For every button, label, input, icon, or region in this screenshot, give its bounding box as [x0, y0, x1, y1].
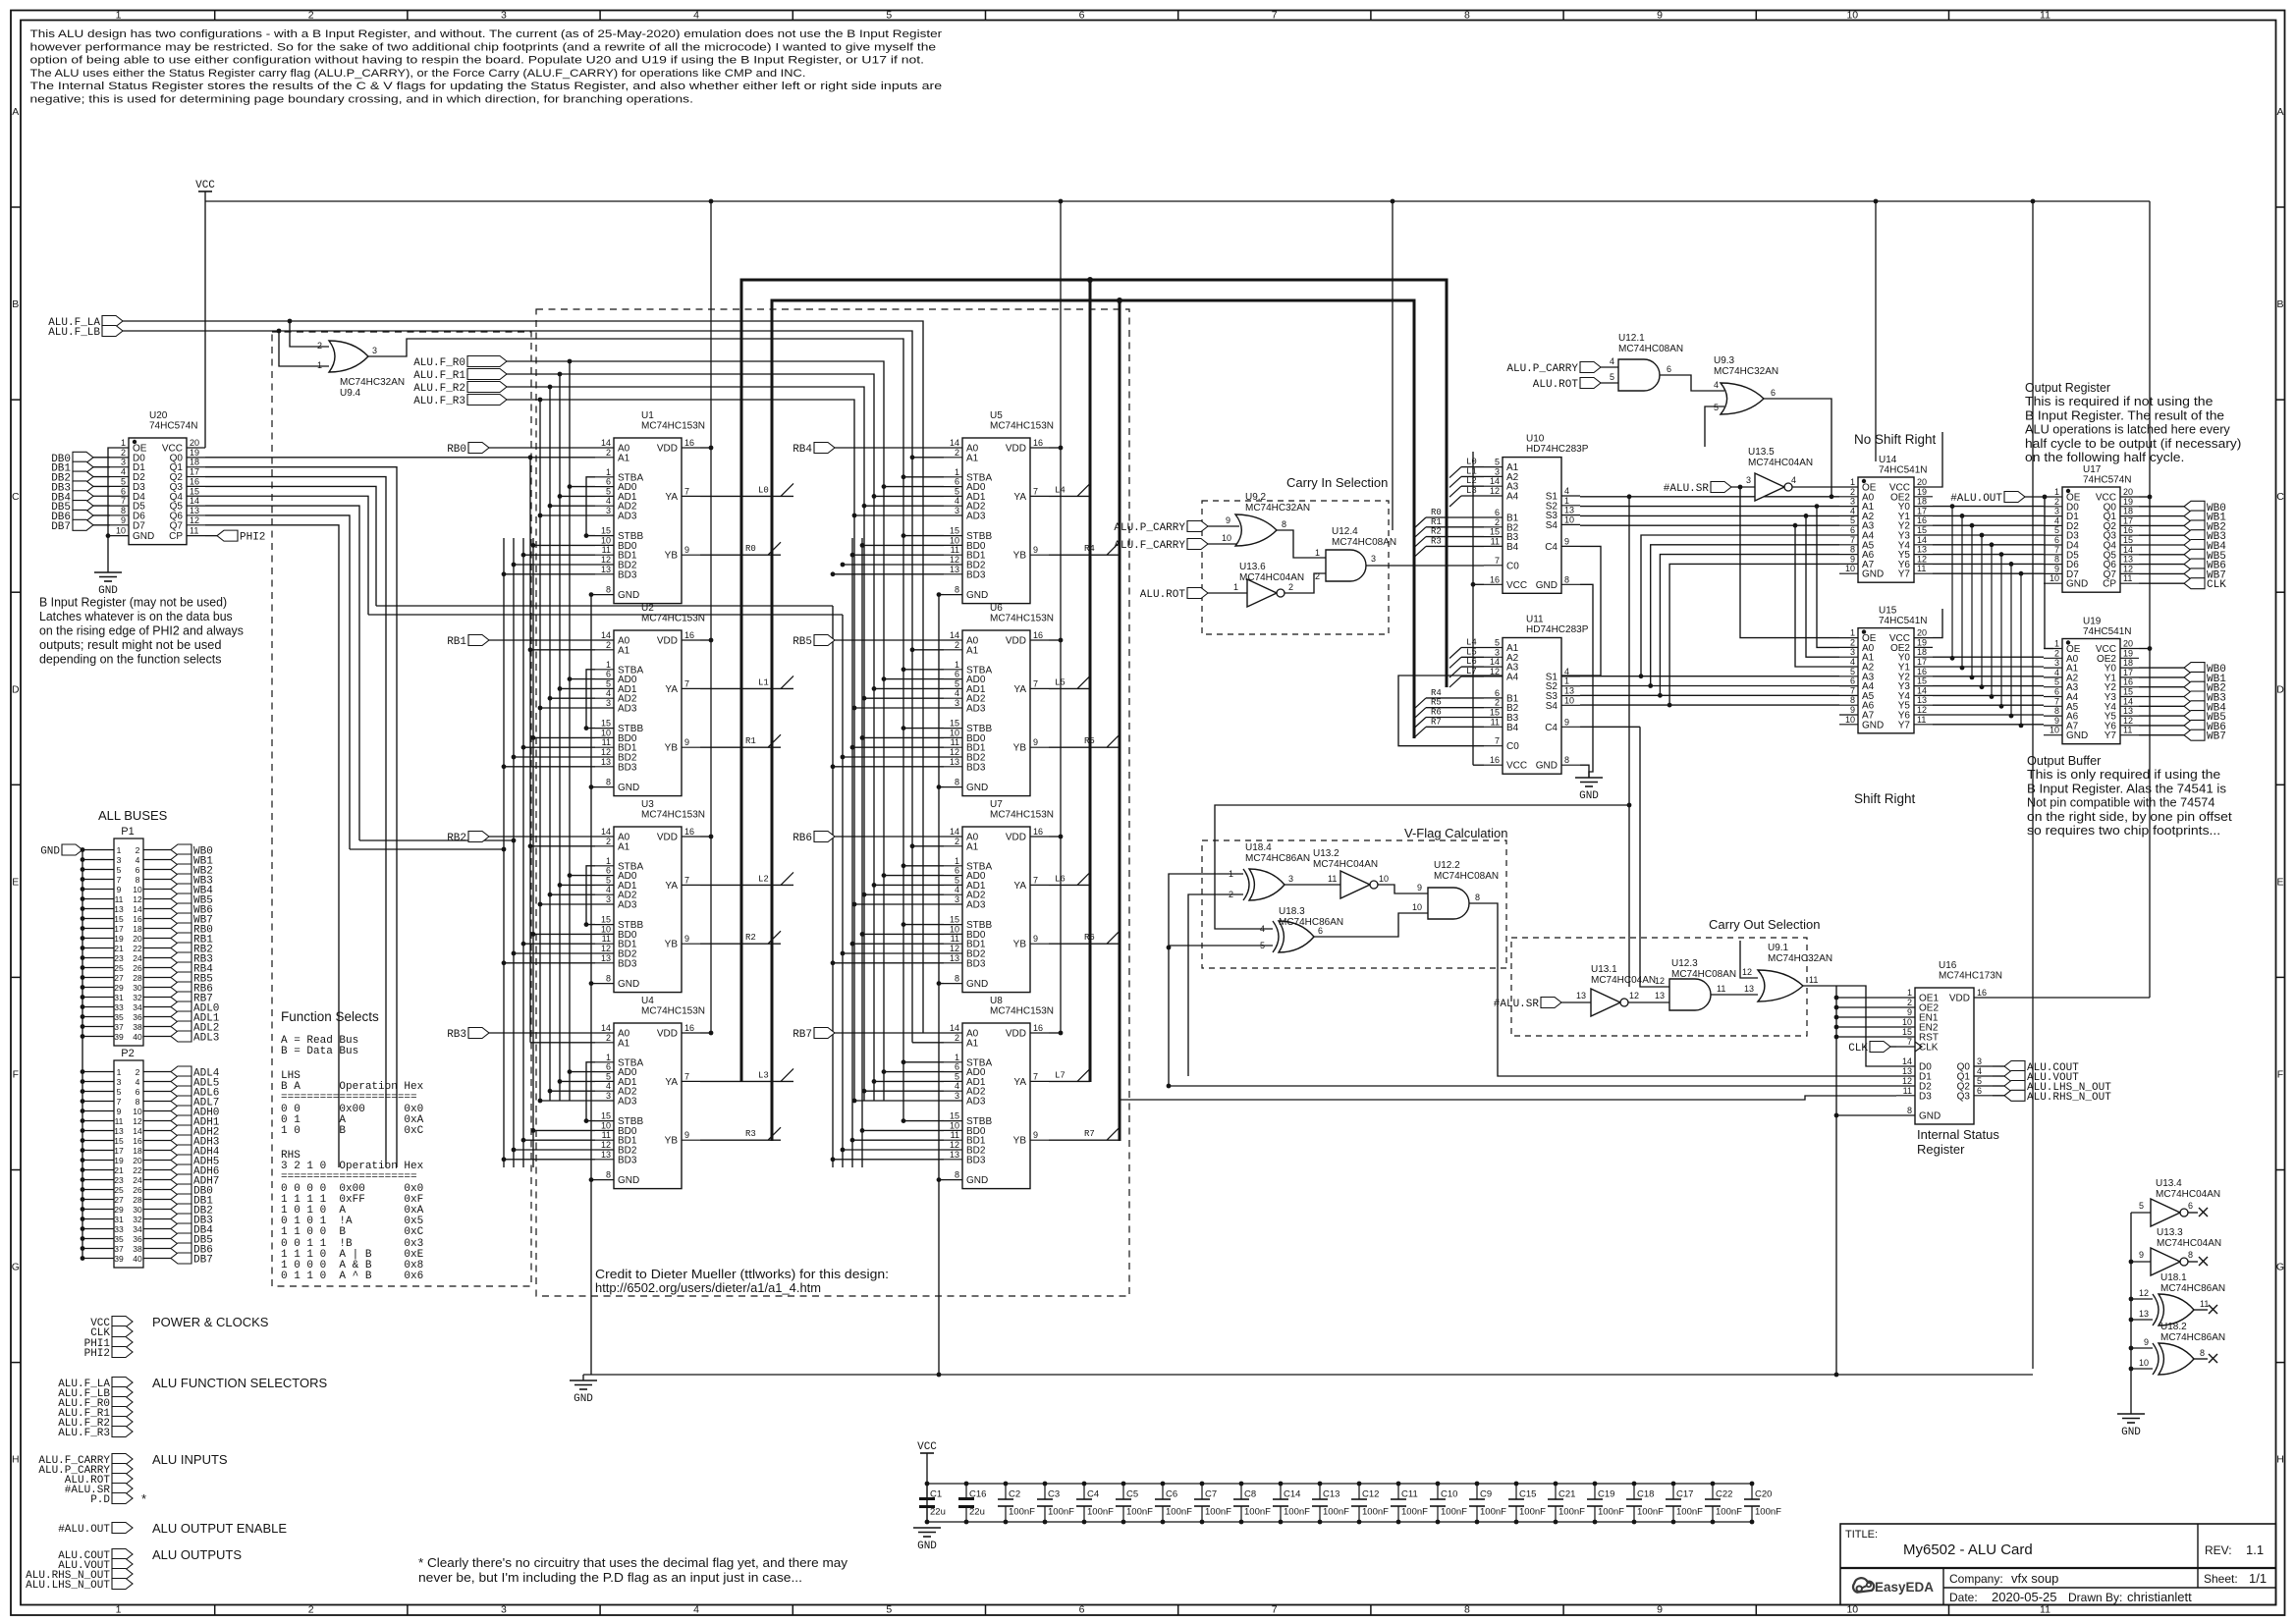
- svg-text:100nF: 100nF: [1284, 1507, 1310, 1518]
- svg-text:13: 13: [601, 953, 611, 963]
- svg-text:9: 9: [684, 545, 689, 555]
- svg-text:GND: GND: [618, 590, 639, 601]
- svg-text:2: 2: [955, 1033, 959, 1043]
- svg-text:16: 16: [684, 1023, 694, 1033]
- svg-text:CP: CP: [169, 531, 183, 542]
- svg-text:16: 16: [2123, 525, 2133, 535]
- svg-text:14: 14: [601, 827, 611, 837]
- svg-text:My6502 - ALU Card: My6502 - ALU Card: [1903, 1542, 2033, 1558]
- svg-text:MC74HC04AN: MC74HC04AN: [2156, 1189, 2220, 1200]
- svg-text:R4: R4: [1084, 544, 1095, 554]
- svg-text:11: 11: [1917, 564, 1926, 573]
- svg-text:MC74HC153N: MC74HC153N: [990, 810, 1054, 821]
- svg-text:15: 15: [950, 915, 959, 925]
- svg-text:19: 19: [190, 448, 199, 458]
- svg-text:39: 39: [114, 1032, 124, 1042]
- svg-text:U8: U8: [990, 996, 1003, 1006]
- svg-text:C10: C10: [1441, 1489, 1457, 1500]
- svg-text:U9.3: U9.3: [1714, 355, 1735, 366]
- svg-text:100nF: 100nF: [1244, 1507, 1271, 1518]
- svg-text:5: 5: [1260, 941, 1265, 950]
- svg-text:U13.6: U13.6: [1239, 562, 1266, 572]
- svg-text:16: 16: [1490, 574, 1500, 584]
- svg-text:GND: GND: [1919, 1111, 1941, 1122]
- svg-text:C15: C15: [1519, 1489, 1536, 1500]
- svg-text:outputs; result might not be u: outputs; result might not be used: [39, 637, 222, 652]
- svg-text:No Shift Right: No Shift Right: [1854, 432, 1937, 447]
- svg-text:5: 5: [955, 1071, 959, 1081]
- svg-text:15: 15: [2123, 687, 2133, 697]
- svg-text:Q3: Q3: [1957, 1091, 1971, 1102]
- svg-text:6: 6: [1495, 688, 1500, 698]
- svg-text:GND: GND: [966, 783, 988, 793]
- svg-text:11: 11: [602, 1130, 611, 1140]
- svg-text:74HC574N: 74HC574N: [2083, 475, 2131, 486]
- svg-text:MC74HC153N: MC74HC153N: [641, 614, 705, 624]
- svg-text:R0: R0: [1431, 508, 1442, 517]
- svg-text:11: 11: [951, 1130, 959, 1140]
- svg-text:1: 1: [1315, 548, 1320, 558]
- svg-text:MC74HC04AN: MC74HC04AN: [1591, 975, 1656, 986]
- svg-text:VDD: VDD: [1006, 833, 1026, 843]
- svg-text:6: 6: [606, 866, 611, 876]
- svg-text:AD3: AD3: [966, 512, 986, 522]
- svg-text:7: 7: [1495, 736, 1500, 746]
- svg-text:6: 6: [1977, 1086, 1982, 1096]
- svg-text:4: 4: [606, 688, 611, 698]
- svg-text:16: 16: [684, 630, 694, 640]
- svg-text:16: 16: [133, 1136, 142, 1146]
- svg-text:1: 1: [1850, 477, 1855, 487]
- svg-text:26: 26: [133, 1185, 142, 1195]
- svg-text:100nF: 100nF: [1519, 1507, 1546, 1518]
- svg-text:VDD: VDD: [657, 444, 678, 455]
- svg-text:RB7: RB7: [793, 1029, 812, 1041]
- svg-text:Sheet:: Sheet:: [2204, 1572, 2238, 1586]
- svg-text:10: 10: [2050, 573, 2059, 583]
- svg-text:32: 32: [133, 993, 142, 1002]
- svg-text:9: 9: [2054, 716, 2059, 726]
- svg-text:Credit to Dieter Mueller (ttlw: Credit to Dieter Mueller (ttlworks) for …: [595, 1267, 889, 1281]
- svg-text:3: 3: [606, 698, 611, 708]
- svg-text:PHI2: PHI2: [240, 532, 265, 544]
- svg-text:6: 6: [955, 1062, 959, 1072]
- svg-text:U14: U14: [1879, 455, 1897, 465]
- svg-text:This is required if not using: This is required if not using the: [2025, 394, 2213, 408]
- svg-text:6: 6: [955, 670, 959, 679]
- svg-text:U20: U20: [149, 410, 168, 421]
- svg-text:12: 12: [2123, 716, 2133, 726]
- svg-text:1: 1: [606, 1053, 611, 1062]
- svg-text:on the rising edge of PHI2 and: on the rising edge of PHI2 and always: [39, 623, 244, 638]
- svg-text:16: 16: [1917, 515, 1927, 525]
- svg-text:HD74HC283P: HD74HC283P: [1526, 444, 1589, 455]
- svg-text:11: 11: [951, 934, 959, 944]
- svg-text:15: 15: [114, 914, 124, 924]
- svg-text:12: 12: [601, 747, 611, 757]
- svg-text:14: 14: [1902, 1056, 1912, 1066]
- svg-text:10: 10: [950, 1120, 959, 1130]
- svg-text:18: 18: [2123, 658, 2133, 668]
- svg-text:100nF: 100nF: [1401, 1507, 1428, 1518]
- svg-text:5: 5: [1850, 515, 1855, 525]
- svg-text:This ALU design has two config: This ALU design has two configurations -…: [30, 28, 943, 40]
- svg-text:12: 12: [601, 944, 611, 953]
- svg-text:14: 14: [2123, 696, 2133, 706]
- svg-text:AD3: AD3: [618, 900, 637, 911]
- svg-text:VDD: VDD: [657, 833, 678, 843]
- svg-text:R6: R6: [1084, 933, 1095, 943]
- svg-text:19: 19: [114, 934, 124, 944]
- svg-text:7: 7: [1033, 1071, 1038, 1081]
- svg-text:YB: YB: [665, 940, 679, 950]
- svg-text:*: *: [141, 1491, 146, 1506]
- svg-text:8: 8: [1464, 9, 1470, 21]
- svg-text:A1: A1: [618, 1038, 630, 1049]
- svg-text:ALU.ROT: ALU.ROT: [1140, 589, 1186, 601]
- svg-text:GND: GND: [574, 1393, 593, 1405]
- svg-text:4: 4: [1564, 486, 1569, 496]
- svg-text:6: 6: [1771, 388, 1776, 398]
- svg-text:4: 4: [1850, 506, 1855, 515]
- svg-text:G: G: [12, 1262, 20, 1273]
- svg-text:14: 14: [1917, 535, 1927, 545]
- svg-text:GND: GND: [618, 979, 639, 990]
- svg-text:15: 15: [601, 526, 611, 536]
- svg-text:MC74HC08AN: MC74HC08AN: [1332, 537, 1396, 548]
- svg-text:A4: A4: [1506, 672, 1519, 682]
- svg-text:5: 5: [1714, 403, 1719, 412]
- svg-text:A1: A1: [966, 645, 979, 656]
- svg-text:19: 19: [114, 1156, 124, 1165]
- svg-text:7: 7: [684, 875, 689, 885]
- svg-text:6: 6: [606, 477, 611, 487]
- svg-text:MC74HC04AN: MC74HC04AN: [1748, 458, 1813, 468]
- svg-text:L4: L4: [1466, 638, 1477, 648]
- svg-text:29: 29: [114, 1205, 124, 1215]
- svg-text:U4: U4: [641, 996, 654, 1006]
- svg-text:3: 3: [955, 506, 959, 515]
- svg-text:U13.2: U13.2: [1313, 848, 1339, 859]
- svg-text:3: 3: [1977, 1056, 1982, 1066]
- svg-text:10: 10: [1845, 715, 1855, 725]
- svg-text:5: 5: [117, 1087, 122, 1097]
- svg-text:R6: R6: [1431, 708, 1442, 718]
- svg-text:4: 4: [1791, 475, 1796, 485]
- svg-text:7: 7: [684, 1071, 689, 1081]
- svg-text:8: 8: [1850, 545, 1855, 555]
- svg-text:GND: GND: [966, 979, 988, 990]
- svg-text:Not pin compatible with the 74: Not pin compatible with the 74574: [2027, 795, 2214, 810]
- svg-text:10: 10: [133, 1107, 142, 1116]
- svg-text:C12: C12: [1362, 1489, 1379, 1500]
- svg-text:22u: 22u: [969, 1507, 985, 1518]
- svg-text:12: 12: [133, 894, 142, 904]
- svg-text:This is only required if using: This is only required if using the: [2027, 767, 2220, 782]
- svg-text:L2: L2: [758, 874, 769, 884]
- svg-text:GND: GND: [1862, 569, 1884, 580]
- svg-text:10: 10: [1846, 9, 1858, 21]
- svg-text:9: 9: [1657, 9, 1663, 21]
- svg-text:C2: C2: [1009, 1489, 1020, 1500]
- svg-text:B4: B4: [1506, 542, 1519, 553]
- svg-text:7: 7: [1907, 1037, 1912, 1047]
- svg-text:14: 14: [950, 438, 959, 448]
- svg-text:19: 19: [1917, 487, 1927, 497]
- svg-text:U18.3: U18.3: [1279, 906, 1305, 917]
- svg-text:3: 3: [2054, 507, 2059, 516]
- svg-text:R5: R5: [1431, 698, 1442, 708]
- svg-text:7: 7: [2054, 545, 2059, 555]
- svg-text:5: 5: [886, 9, 892, 21]
- svg-text:11: 11: [1809, 975, 1818, 985]
- svg-text:2: 2: [955, 837, 959, 846]
- svg-text:CLK: CLK: [1848, 1043, 1868, 1055]
- svg-text:A1: A1: [966, 841, 979, 852]
- svg-text:8: 8: [1464, 1604, 1470, 1616]
- svg-text:10: 10: [116, 526, 126, 536]
- svg-text:4: 4: [2054, 668, 2059, 677]
- svg-text:MC74HC08AN: MC74HC08AN: [1618, 344, 1683, 354]
- svg-text:20: 20: [190, 438, 199, 448]
- svg-text:7: 7: [684, 486, 689, 496]
- svg-text:8: 8: [1850, 695, 1855, 705]
- svg-text:YA: YA: [1013, 1077, 1026, 1088]
- svg-text:100nF: 100nF: [1558, 1507, 1585, 1518]
- svg-text:14: 14: [1490, 657, 1500, 667]
- svg-text:10: 10: [2139, 1358, 2149, 1368]
- svg-text:15: 15: [1902, 1027, 1912, 1037]
- svg-text:7: 7: [1495, 556, 1500, 566]
- svg-text:YB: YB: [665, 1136, 679, 1147]
- svg-text:15: 15: [950, 719, 959, 729]
- svg-text:U9.1: U9.1: [1768, 943, 1789, 953]
- svg-text:CLK: CLK: [1919, 1043, 1939, 1054]
- svg-text:12: 12: [190, 515, 199, 525]
- svg-text:GND: GND: [966, 590, 988, 601]
- svg-text:A1: A1: [618, 453, 630, 463]
- svg-text:MC74HC153N: MC74HC153N: [641, 1006, 705, 1017]
- svg-text:U7: U7: [990, 799, 1003, 810]
- svg-text:11: 11: [190, 526, 198, 536]
- svg-text:14: 14: [133, 1126, 142, 1136]
- svg-text:GND: GND: [1536, 580, 1558, 591]
- svg-text:12: 12: [950, 555, 959, 565]
- svg-text:15: 15: [190, 486, 199, 496]
- svg-text:U18.2: U18.2: [2160, 1322, 2187, 1332]
- svg-text:6: 6: [121, 486, 126, 496]
- svg-text:30: 30: [133, 1205, 142, 1215]
- svg-text:#ALU.SR: #ALU.SR: [1664, 483, 1710, 495]
- svg-text:22: 22: [133, 944, 142, 953]
- svg-text:ALU.F_R1: ALU.F_R1: [413, 370, 465, 382]
- svg-text:15: 15: [1917, 676, 1927, 686]
- svg-text:CP: CP: [2103, 579, 2116, 590]
- svg-text:4: 4: [606, 885, 611, 894]
- svg-text:2: 2: [2054, 648, 2059, 658]
- svg-text:4: 4: [693, 9, 699, 21]
- svg-text:C17: C17: [1676, 1489, 1693, 1500]
- svg-text:11: 11: [115, 1116, 124, 1126]
- svg-text:7: 7: [1033, 486, 1038, 496]
- svg-text:74HC574N: 74HC574N: [149, 421, 197, 432]
- svg-text:U16: U16: [1939, 960, 1957, 971]
- svg-text:100nF: 100nF: [1441, 1507, 1467, 1518]
- svg-text:11: 11: [951, 737, 959, 747]
- svg-text:R0: R0: [745, 544, 756, 554]
- svg-text:H: H: [2276, 1454, 2284, 1466]
- svg-text:Date:: Date:: [1949, 1591, 1978, 1604]
- svg-text:L5: L5: [1055, 677, 1066, 687]
- svg-text:13: 13: [114, 1126, 124, 1136]
- svg-text:L1: L1: [758, 677, 769, 687]
- svg-text:1: 1: [116, 9, 122, 21]
- svg-text:6: 6: [1667, 364, 1671, 374]
- svg-text:P.D: P.D: [90, 1494, 110, 1506]
- svg-text:2: 2: [317, 341, 322, 351]
- svg-text:40: 40: [133, 1032, 142, 1042]
- svg-text:U12.4: U12.4: [1332, 526, 1358, 537]
- svg-text:11: 11: [2123, 726, 2132, 735]
- svg-text:16: 16: [1917, 667, 1927, 676]
- svg-text:D3: D3: [1919, 1091, 1932, 1102]
- svg-text:MC74HC04AN: MC74HC04AN: [1239, 572, 1304, 583]
- svg-text:14: 14: [601, 1023, 611, 1033]
- svg-text:ALU.F_R3: ALU.F_R3: [58, 1428, 110, 1439]
- svg-text:B Input Register. Alas the 745: B Input Register. Alas the 74541 is: [2027, 781, 2226, 795]
- svg-text:32: 32: [133, 1215, 142, 1224]
- svg-text:9: 9: [1907, 1007, 1912, 1017]
- svg-text:13: 13: [950, 757, 959, 767]
- svg-text:U2: U2: [641, 603, 654, 614]
- svg-text:YA: YA: [1013, 492, 1026, 503]
- svg-text:13: 13: [1902, 1066, 1912, 1076]
- svg-text:U1: U1: [641, 410, 654, 421]
- svg-text:5: 5: [955, 678, 959, 688]
- svg-text:24: 24: [133, 953, 142, 963]
- svg-text:GND: GND: [618, 783, 639, 793]
- svg-text:R7: R7: [1431, 717, 1442, 727]
- svg-text:MC74HC32AN: MC74HC32AN: [1768, 953, 1832, 964]
- svg-text:2: 2: [1315, 571, 1320, 581]
- svg-text:10: 10: [950, 728, 959, 737]
- svg-text:10: 10: [1379, 874, 1389, 884]
- svg-text:U11: U11: [1526, 615, 1544, 625]
- svg-text:1: 1: [1564, 496, 1569, 506]
- svg-text:GND: GND: [2121, 1427, 2141, 1438]
- svg-text:2: 2: [606, 837, 611, 846]
- svg-text:ALU OUTPUTS: ALU OUTPUTS: [152, 1547, 242, 1562]
- svg-text:A4: A4: [1506, 492, 1519, 503]
- svg-text:36: 36: [133, 1234, 142, 1244]
- svg-text:U17: U17: [2083, 464, 2102, 475]
- svg-text:4: 4: [693, 1604, 699, 1616]
- svg-text:29: 29: [114, 983, 124, 993]
- svg-text:35: 35: [114, 1012, 124, 1022]
- svg-text:13: 13: [601, 565, 611, 574]
- svg-text:BD3: BD3: [966, 762, 986, 773]
- svg-text:2: 2: [308, 9, 314, 21]
- svg-text:9: 9: [1033, 545, 1038, 555]
- svg-text:#ALU.OUT: #ALU.OUT: [58, 1524, 110, 1536]
- svg-text:8: 8: [955, 778, 959, 787]
- svg-text:C: C: [12, 491, 20, 503]
- svg-text:ALU OUTPUT ENABLE: ALU OUTPUT ENABLE: [152, 1521, 287, 1536]
- svg-text:2: 2: [1907, 998, 1912, 1007]
- svg-text:20: 20: [133, 934, 142, 944]
- svg-text:3: 3: [1495, 466, 1500, 476]
- svg-text:YB: YB: [1013, 940, 1027, 950]
- svg-text:VCC: VCC: [195, 180, 215, 191]
- svg-text:R1: R1: [1431, 517, 1442, 527]
- svg-text:5: 5: [886, 1604, 892, 1616]
- svg-text:3: 3: [606, 506, 611, 515]
- svg-text:Carry In Selection: Carry In Selection: [1286, 475, 1388, 490]
- svg-text:GND: GND: [1862, 720, 1884, 730]
- svg-text:9: 9: [1850, 705, 1855, 715]
- svg-text:ALU.P_CARRY: ALU.P_CARRY: [1506, 363, 1578, 375]
- svg-text:3: 3: [1850, 647, 1855, 657]
- svg-text:AD3: AD3: [966, 900, 986, 911]
- svg-text:ALU.F_R2: ALU.F_R2: [413, 383, 465, 395]
- svg-text:E: E: [2276, 876, 2283, 888]
- svg-text:VDD: VDD: [1006, 444, 1026, 455]
- svg-text:GND: GND: [966, 1175, 988, 1186]
- svg-text:option of being able to use ei: option of being able to use either confi…: [30, 55, 925, 67]
- svg-text:U12.3: U12.3: [1671, 958, 1698, 969]
- svg-text:17: 17: [114, 924, 124, 934]
- svg-text:3: 3: [501, 9, 507, 21]
- svg-text:Output Buffer: Output Buffer: [2027, 753, 2102, 768]
- svg-text:C4: C4: [1087, 1489, 1099, 1500]
- svg-text:8: 8: [606, 585, 611, 595]
- svg-text:VCC: VCC: [1506, 580, 1527, 591]
- svg-text:RB6: RB6: [793, 833, 812, 844]
- svg-text:C4: C4: [1545, 542, 1558, 553]
- svg-text:MC74HC153N: MC74HC153N: [990, 421, 1054, 432]
- svg-text:1: 1: [955, 467, 959, 477]
- svg-text:100nF: 100nF: [1637, 1507, 1664, 1518]
- svg-text:GND: GND: [618, 1175, 639, 1186]
- svg-text:37: 37: [114, 1022, 124, 1032]
- svg-text:11: 11: [2040, 1604, 2050, 1616]
- svg-text:2: 2: [1850, 637, 1855, 647]
- svg-text:21: 21: [114, 1165, 124, 1175]
- svg-text:100nF: 100nF: [1048, 1507, 1074, 1518]
- svg-text:8: 8: [1282, 519, 1286, 529]
- svg-text:3: 3: [372, 346, 377, 355]
- svg-text:1: 1: [121, 438, 126, 448]
- svg-text:12: 12: [1917, 554, 1927, 564]
- svg-text:1: 1: [117, 1067, 122, 1077]
- svg-text:4: 4: [1564, 667, 1569, 676]
- svg-text:2: 2: [1495, 698, 1500, 708]
- svg-text:ALU.ROT: ALU.ROT: [1533, 379, 1579, 391]
- svg-text:GND: GND: [917, 1541, 937, 1552]
- svg-text:8: 8: [2054, 555, 2059, 565]
- svg-text:30: 30: [133, 983, 142, 993]
- svg-text:U15: U15: [1879, 606, 1897, 617]
- svg-text:ALU.LHS_N_OUT: ALU.LHS_N_OUT: [26, 1580, 110, 1592]
- svg-text:1: 1: [117, 845, 122, 855]
- svg-text:GND: GND: [1579, 790, 1599, 802]
- svg-text:16: 16: [1033, 1023, 1043, 1033]
- svg-text:14: 14: [133, 904, 142, 914]
- svg-text:10: 10: [601, 1120, 611, 1130]
- svg-text:11: 11: [1491, 717, 1500, 727]
- svg-text:MC74HC32AN: MC74HC32AN: [1714, 366, 1778, 377]
- svg-text:3: 3: [117, 855, 122, 865]
